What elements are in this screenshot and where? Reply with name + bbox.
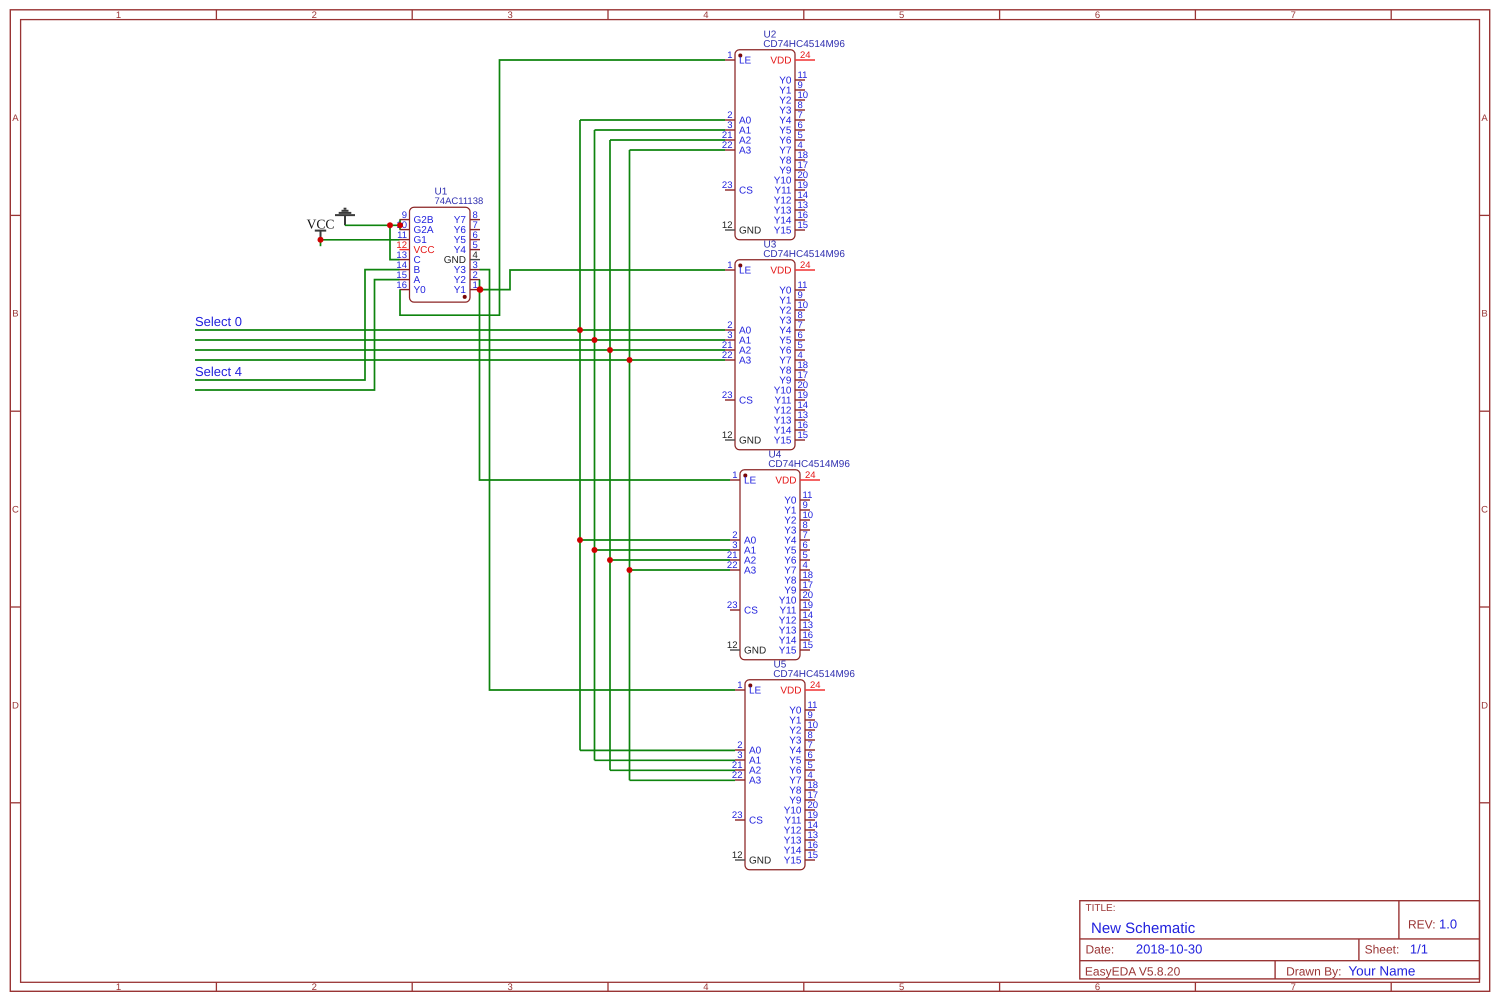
- wire A2 vertical U2-U5: [609, 140, 611, 770]
- svg-text:CS: CS: [749, 816, 763, 827]
- wire U1 Y0 to U2 LE: [400, 60, 725, 315]
- svg-text:CD74HC4514M96: CD74HC4514M96: [773, 669, 855, 680]
- U1 pin 6 Y5: [454, 230, 480, 246]
- svg-text:2: 2: [312, 982, 317, 993]
- svg-text:1: 1: [727, 50, 732, 61]
- U2 pin 13 Y13: [774, 200, 808, 216]
- svg-text:LE: LE: [739, 56, 752, 67]
- U1 pin 13 C: [396, 250, 420, 266]
- U4 pin 1 LE: [730, 470, 757, 486]
- U3 pin 20 Y10: [774, 380, 808, 396]
- U2 pin-1 marker dot: [738, 54, 742, 58]
- U4 pin 9 Y1: [784, 500, 810, 516]
- svg-text:24: 24: [810, 680, 821, 691]
- svg-text:Select 4: Select 4: [195, 364, 242, 379]
- wire U1 Y1 to U3 LE: [480, 270, 725, 290]
- svg-text:2: 2: [312, 10, 317, 21]
- U1 pin 5 Y4: [454, 240, 480, 256]
- svg-text:24: 24: [800, 50, 811, 61]
- svg-text:D: D: [12, 700, 19, 711]
- U2 pin 24 VDD: [770, 50, 815, 67]
- U3 pin 5 Y6: [779, 340, 805, 356]
- U5 pin 14 Y12: [784, 820, 818, 836]
- U3 pin 15 Y15: [774, 430, 808, 446]
- U3 pin 6 Y5: [779, 330, 805, 346]
- U2 pin 2 A0: [725, 110, 752, 126]
- U5 pin 21 A2: [732, 760, 762, 776]
- U5 pin 23 CS: [732, 810, 763, 826]
- junction VCC net at pin stub column: [397, 222, 403, 228]
- wire A0 to U4: [580, 539, 730, 541]
- svg-text:VDD: VDD: [770, 56, 791, 67]
- svg-text:A: A: [12, 113, 19, 124]
- U2 pin 10 Y2: [779, 90, 808, 106]
- svg-text:24: 24: [800, 260, 811, 271]
- U3 pin 22 A3: [722, 350, 752, 366]
- svg-text:A: A: [1481, 113, 1488, 124]
- svg-text:1: 1: [732, 470, 737, 481]
- IC U5 CD74HC4514M96 body: [745, 680, 805, 870]
- svg-text:1: 1: [116, 10, 121, 21]
- U3 pin 11 Y0: [779, 280, 807, 296]
- svg-text:4: 4: [703, 982, 708, 993]
- U1 pin 2 Y2: [454, 270, 480, 286]
- U1 pin 8 Y7: [454, 210, 480, 226]
- U2 pin 21 A2: [722, 130, 752, 146]
- U3 pin 23 CS: [722, 390, 753, 406]
- U2 pin 1 LE: [725, 50, 752, 66]
- VCC power flag: [307, 217, 335, 240]
- svg-text:15: 15: [798, 220, 809, 231]
- svg-text:TITLE:: TITLE:: [1086, 903, 1116, 914]
- U4 pin 14 Y12: [779, 610, 813, 626]
- U5 pin 12 GND: [732, 850, 771, 866]
- svg-text:New Schematic: New Schematic: [1091, 920, 1196, 937]
- wire A0 to U5: [580, 749, 735, 751]
- U2 pin 14 Y12: [774, 190, 808, 206]
- svg-text:15: 15: [808, 850, 819, 861]
- wire A0 vertical U2-U5: [579, 120, 581, 750]
- U3 pin 12 GND: [722, 430, 761, 446]
- svg-text:Y15: Y15: [779, 646, 797, 657]
- svg-text:Drawn By:: Drawn By:: [1286, 965, 1341, 979]
- title block: [1080, 901, 1480, 979]
- U4 pin 8 Y3: [784, 520, 810, 536]
- U1 pin 15 A: [396, 270, 420, 286]
- U5 pin 20 Y10: [784, 800, 818, 816]
- svg-text:15: 15: [798, 430, 809, 441]
- U5 pin 1 LE: [735, 680, 762, 696]
- wire A3 to U4: [630, 569, 731, 571]
- U2 pin 11 Y0: [779, 70, 807, 86]
- U2 pin 6 Y5: [779, 120, 805, 136]
- U1 pin 11 G1: [397, 230, 427, 246]
- U2 pin 4 Y7: [779, 140, 805, 156]
- U5 pin 5 Y6: [789, 760, 815, 776]
- junction at VCC flag: [318, 237, 324, 243]
- U2 pin 3 A1: [725, 120, 752, 136]
- U4 pin 17 Y9: [784, 580, 813, 596]
- U1 pin 3 Y3: [454, 260, 480, 276]
- U2 pin 18 Y8: [779, 150, 808, 166]
- svg-text:24: 24: [805, 470, 816, 481]
- U2 pin 23 CS: [722, 180, 753, 196]
- U5 pin 6 Y5: [789, 750, 815, 766]
- U2 pin 12 GND: [722, 220, 761, 236]
- junction A0 at select row: [577, 327, 583, 333]
- U4 pin 5 Y6: [784, 550, 810, 566]
- U3 pin 13 Y13: [774, 410, 808, 426]
- svg-text:1: 1: [727, 260, 732, 271]
- U5 pin 18 Y8: [789, 780, 818, 796]
- U4 pin 24 VDD: [775, 470, 820, 487]
- svg-text:B: B: [12, 309, 18, 320]
- svg-text:12: 12: [732, 850, 743, 861]
- U5 pin 3 A1: [735, 750, 762, 766]
- wire U1 Y3 to U5 LE: [480, 270, 736, 690]
- svg-text:7: 7: [1291, 10, 1296, 21]
- U2 pin 22 A3: [722, 140, 752, 156]
- svg-text:12: 12: [722, 220, 733, 231]
- bar-antenna power symbol: [335, 209, 355, 226]
- U3 pin 3 A1: [725, 330, 752, 346]
- wire VCC net down to U1 C pin 13: [390, 225, 400, 259]
- wire A1 to U4: [595, 549, 731, 551]
- svg-text:23: 23: [722, 390, 733, 401]
- svg-text:Y1: Y1: [454, 285, 467, 296]
- svg-text:2018-10-30: 2018-10-30: [1136, 941, 1203, 956]
- wire Select3 bus row to U3 A3: [195, 359, 725, 361]
- U1 pin 16 Y0: [396, 280, 426, 296]
- U4 pin 23 CS: [727, 600, 758, 616]
- svg-text:GND: GND: [739, 226, 761, 237]
- U3 pin 7 Y4: [779, 320, 805, 336]
- U3 pin-1 marker dot: [738, 264, 742, 268]
- svg-text:EasyEDA V5.8.20: EasyEDA V5.8.20: [1085, 965, 1181, 979]
- wire Select1 bus row to U3 A1: [195, 339, 725, 341]
- IC U2 CD74HC4514M96 body: [735, 50, 795, 240]
- U3 pin 16 Y14: [774, 420, 808, 436]
- U5 pin 4 Y7: [789, 770, 815, 786]
- junction at U1 Y1 pin: [477, 286, 484, 293]
- U5 pin 9 Y1: [789, 710, 815, 726]
- wire A3 to U2: [630, 149, 726, 151]
- junction A1 at select row: [592, 337, 598, 343]
- U5 pin 13 Y13: [784, 830, 818, 846]
- U5 pin 24 VDD: [780, 680, 825, 697]
- U3 pin 2 A0: [725, 320, 752, 336]
- svg-text:5: 5: [899, 982, 904, 993]
- svg-text:1/1: 1/1: [1410, 941, 1428, 956]
- svg-text:3: 3: [507, 982, 512, 993]
- U4 pin 6 Y5: [784, 540, 810, 556]
- junction A0 at U4 row: [577, 537, 583, 543]
- U1 pin 14 B: [396, 260, 420, 276]
- svg-text:Y0: Y0: [414, 285, 427, 296]
- U3 pin 14 Y12: [774, 400, 808, 416]
- svg-text:GND: GND: [749, 856, 771, 867]
- U3 pin 19 Y11: [774, 390, 808, 406]
- wire vertical tying U1 pin 9 to pin 10: [399, 220, 401, 230]
- svg-text:23: 23: [727, 600, 738, 611]
- wire VCC flag to U1 G1 pin 11: [321, 239, 400, 241]
- svg-text:C: C: [12, 505, 19, 516]
- svg-text:16: 16: [396, 280, 407, 291]
- U4 pin 20 Y10: [779, 590, 813, 606]
- U2 pin 19 Y11: [774, 180, 808, 196]
- wire antenna to U1 pins 9/10: [345, 224, 400, 226]
- U4 pin 12 GND: [727, 640, 766, 656]
- U4 pin 3 A1: [730, 540, 757, 556]
- svg-text:A3: A3: [739, 356, 752, 367]
- svg-text:Y15: Y15: [774, 226, 792, 237]
- svg-text:CD74HC4514M96: CD74HC4514M96: [763, 249, 845, 260]
- wire A3 vertical U2-U5: [629, 150, 631, 780]
- junction A3 at U4 row: [627, 567, 633, 573]
- svg-text:23: 23: [722, 180, 733, 191]
- svg-text:A3: A3: [749, 776, 762, 787]
- U4 pin 10 Y2: [784, 510, 813, 526]
- U4 pin 19 Y11: [779, 600, 813, 616]
- svg-text:CS: CS: [744, 606, 758, 617]
- svg-text:CS: CS: [739, 186, 753, 197]
- U3 pin 9 Y1: [779, 290, 805, 306]
- svg-text:LE: LE: [744, 476, 757, 487]
- wire Select4 row to U1 B pin 14: [195, 270, 400, 380]
- U4 pin 11 Y0: [784, 490, 812, 506]
- svg-text:3: 3: [507, 10, 512, 21]
- U1 pin 4 GND: [444, 250, 480, 266]
- U4 pin-1 marker dot: [743, 474, 747, 478]
- junction VCC net branch: [387, 222, 393, 228]
- svg-text:CD74HC4514M96: CD74HC4514M96: [763, 39, 845, 50]
- svg-text:12: 12: [722, 430, 733, 441]
- U5 pin 17 Y9: [789, 790, 818, 806]
- U3 pin 1 LE: [725, 260, 752, 276]
- svg-text:12: 12: [727, 640, 738, 651]
- svg-text:GND: GND: [744, 646, 766, 657]
- svg-text:Select 0: Select 0: [195, 314, 242, 329]
- svg-text:Sheet:: Sheet:: [1365, 942, 1400, 956]
- U3 pin 21 A2: [722, 340, 752, 356]
- U5 pin-1 marker dot: [748, 684, 752, 688]
- U3 pin 10 Y2: [779, 300, 808, 316]
- wire A2 to U4: [610, 559, 730, 561]
- U2 pin 15 Y15: [774, 220, 808, 236]
- svg-text:7: 7: [1291, 982, 1296, 993]
- junction A2 at select row: [607, 347, 613, 353]
- U4 pin 4 Y7: [784, 560, 810, 576]
- svg-text:1: 1: [116, 982, 121, 993]
- U3 pin 24 VDD: [770, 260, 815, 277]
- U4 pin 18 Y8: [784, 570, 813, 586]
- U2 pin 5 Y6: [779, 130, 805, 146]
- svg-text:4: 4: [703, 10, 708, 21]
- svg-text:A3: A3: [744, 566, 757, 577]
- U4 pin 16 Y14: [779, 630, 813, 646]
- svg-text:23: 23: [732, 810, 743, 821]
- svg-text:Y15: Y15: [774, 436, 792, 447]
- wire A1 vertical U2-U5: [594, 130, 596, 760]
- junction A1 at U4 row: [592, 547, 598, 553]
- IC U4 CD74HC4514M96 body: [740, 470, 800, 660]
- svg-text:Y15: Y15: [784, 856, 802, 867]
- wire A2 to U2: [610, 139, 725, 141]
- U1 pin 7 Y6: [454, 220, 480, 236]
- U5 pin 7 Y4: [789, 740, 815, 756]
- svg-text:1.0: 1.0: [1439, 916, 1457, 931]
- svg-text:CD74HC4514M96: CD74HC4514M96: [768, 459, 850, 470]
- svg-text:1: 1: [737, 680, 742, 691]
- svg-text:VDD: VDD: [770, 266, 791, 277]
- U5 pin 11 Y0: [789, 700, 817, 716]
- wire Select5 row to U1 A pin 15: [195, 280, 400, 390]
- svg-text:Date:: Date:: [1086, 942, 1115, 956]
- U1 pin 9 G2B: [400, 210, 434, 226]
- svg-text:A3: A3: [739, 146, 752, 157]
- wire A1 to U5: [595, 759, 736, 761]
- U4 pin 2 A0: [730, 530, 757, 546]
- U5 pin 22 A3: [732, 770, 762, 786]
- svg-text:D: D: [1481, 700, 1488, 711]
- IC U3 CD74HC4514M96 body: [735, 260, 795, 450]
- svg-text:6: 6: [1095, 10, 1100, 21]
- U2 pin 7 Y4: [779, 110, 805, 126]
- U5 pin 15 Y15: [784, 850, 818, 866]
- junction A3 at select row: [627, 357, 633, 363]
- svg-text:LE: LE: [739, 266, 752, 277]
- U3 pin 8 Y3: [779, 310, 805, 326]
- wire A1 to U2: [595, 129, 726, 131]
- svg-text:5: 5: [899, 10, 904, 21]
- U1 pin 10 G2A: [396, 220, 433, 236]
- wire A0 to U2: [580, 119, 725, 121]
- svg-text:GND: GND: [739, 436, 761, 447]
- svg-text:LE: LE: [749, 686, 762, 697]
- svg-text:CS: CS: [739, 396, 753, 407]
- svg-text:74AC11138: 74AC11138: [435, 196, 484, 207]
- junction A2 at U4 row: [607, 557, 613, 563]
- U3 pin 4 Y7: [779, 350, 805, 366]
- svg-text:B: B: [1481, 309, 1487, 320]
- svg-text:C: C: [1481, 505, 1488, 516]
- U5 pin 16 Y14: [784, 840, 818, 856]
- U4 pin 22 A3: [727, 560, 757, 576]
- U5 pin 10 Y2: [789, 720, 818, 736]
- U2 pin 16 Y14: [774, 210, 808, 226]
- svg-text:VCC: VCC: [307, 217, 335, 232]
- U4 pin 7 Y4: [784, 530, 810, 546]
- U2 pin 8 Y3: [779, 100, 805, 116]
- svg-text:REV:: REV:: [1408, 917, 1436, 931]
- IC U1 74AC11138 body: [410, 207, 471, 302]
- U2 pin 17 Y9: [779, 160, 808, 176]
- U4 pin 15 Y15: [779, 640, 813, 656]
- U1 pin 1 Y1: [454, 280, 480, 296]
- U5 pin 19 Y11: [784, 810, 818, 826]
- U2 pin 9 Y1: [779, 80, 805, 96]
- U5 pin 2 A0: [735, 740, 762, 756]
- wire Select2 bus row to U3 A2: [195, 349, 725, 351]
- U2 pin 20 Y10: [774, 170, 808, 186]
- wire U1 Y2 down to U4 LE: [480, 280, 731, 480]
- svg-text:15: 15: [803, 640, 814, 651]
- svg-text:Your Name: Your Name: [1348, 964, 1415, 979]
- U1 pin 12 VCC: [396, 240, 434, 256]
- U3 pin 18 Y8: [779, 360, 808, 376]
- svg-text:VDD: VDD: [775, 476, 796, 487]
- U4 pin 21 A2: [727, 550, 757, 566]
- U3 pin 17 Y9: [779, 370, 808, 386]
- wire A3 to U5: [630, 779, 736, 781]
- wire VCC flag stub down: [320, 240, 322, 246]
- U1 pin-1 marker dot: [463, 295, 467, 299]
- svg-text:VDD: VDD: [780, 686, 801, 697]
- svg-text:6: 6: [1095, 982, 1100, 993]
- U4 pin 13 Y13: [779, 620, 813, 636]
- U5 pin 8 Y3: [789, 730, 815, 746]
- wire Select0 bus row to U3 A0: [195, 329, 725, 331]
- wire A2 to U5: [610, 769, 735, 771]
